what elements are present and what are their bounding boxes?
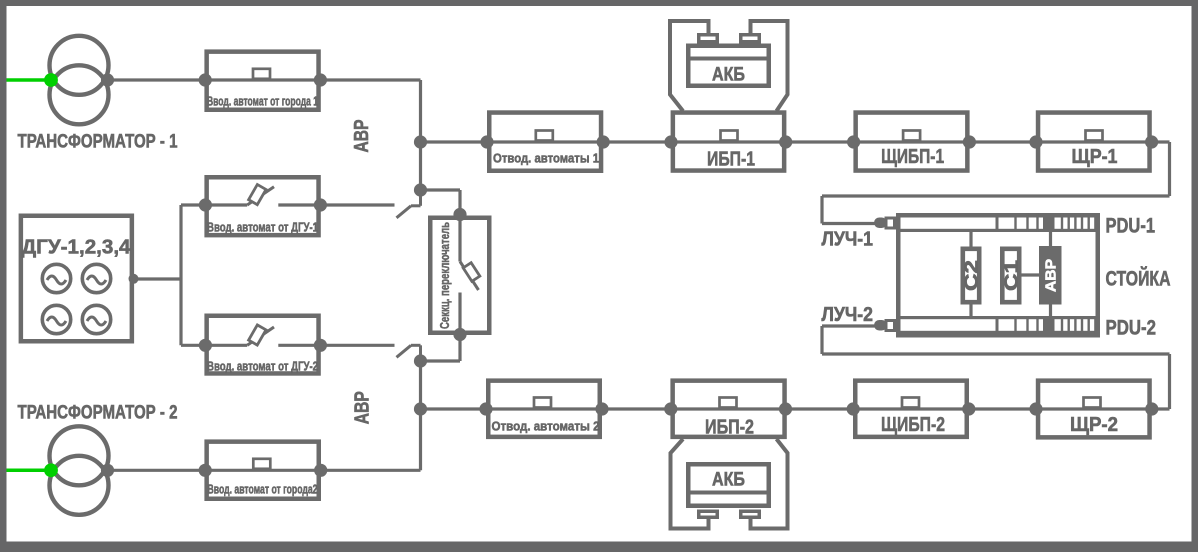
svg-text:Ввод. автомат от города 1: Ввод. автомат от города 1 (207, 94, 318, 109)
svg-text:ЩР-2: ЩР-2 (1070, 413, 1118, 436)
svg-text:АВР: АВР (350, 391, 373, 424)
svg-text:АВР: АВР (1043, 259, 1059, 292)
svg-text:ЛУЧ-1: ЛУЧ-1 (822, 229, 874, 251)
svg-text:Отвод. автоматы 2: Отвод. автоматы 2 (492, 419, 600, 434)
svg-text:АВР: АВР (350, 120, 373, 153)
svg-text:ЩИБП-2: ЩИБП-2 (881, 413, 945, 436)
svg-text:Ввод. автомат от ДГУ-2: Ввод. автомат от ДГУ-2 (207, 359, 318, 374)
svg-text:ИБП-2: ИБП-2 (705, 416, 754, 439)
svg-text:ЩР-1: ЩР-1 (1072, 145, 1118, 168)
svg-text:ЛУЧ-2: ЛУЧ-2 (822, 304, 874, 326)
svg-text:АКБ: АКБ (712, 469, 745, 491)
svg-text:ТРАНСФОРМАТОР - 1: ТРАНСФОРМАТОР - 1 (18, 132, 178, 153)
svg-text:Ввод. автомат от города2: Ввод. автомат от города2 (208, 482, 318, 497)
svg-text:ДГУ-1,2,3,4: ДГУ-1,2,3,4 (22, 236, 132, 259)
svg-text:ИБП-1: ИБП-1 (707, 148, 755, 171)
svg-text:СТОЙКА: СТОЙКА (1106, 266, 1171, 291)
svg-text:С1: С1 (1001, 260, 1021, 291)
svg-text:Секкц. переключатель: Секкц. переключатель (437, 222, 452, 329)
svg-text:АКБ: АКБ (712, 64, 745, 86)
svg-text:ЩИБП-1: ЩИБП-1 (881, 145, 944, 168)
svg-text:Отвод. автоматы 1: Отвод. автоматы 1 (493, 151, 599, 166)
svg-text:С2: С2 (962, 260, 982, 291)
svg-text:PDU-1: PDU-1 (1106, 214, 1156, 238)
svg-text:ТРАНСФОРМАТОР - 2: ТРАНСФОРМАТОР - 2 (18, 403, 178, 424)
svg-text:PDU-2: PDU-2 (1106, 316, 1157, 340)
svg-text:Ввод. автомат от ДГУ-1: Ввод. автомат от ДГУ-1 (207, 220, 318, 235)
